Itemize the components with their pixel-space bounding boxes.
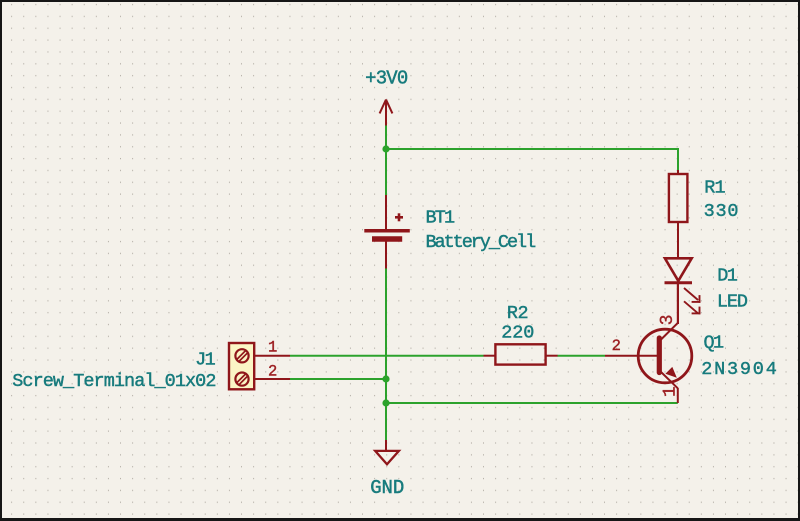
wire J1 pin2 to junction <box>290 378 386 380</box>
collector diagonal <box>661 323 678 340</box>
transistor Q1 <box>605 283 692 403</box>
gnd triangle <box>375 451 399 464</box>
svg-text:Battery_Cell: Battery_Cell <box>426 232 537 253</box>
svg-text:2: 2 <box>612 337 621 355</box>
resistor R1 <box>669 170 688 259</box>
pin top <box>385 195 387 229</box>
emitter arrow <box>665 367 676 378</box>
pin bottom <box>677 283 679 324</box>
wire bottom horizontal to emitter <box>386 402 678 404</box>
pin right <box>546 355 558 357</box>
svg-text:330: 330 <box>704 201 740 222</box>
junction J1 pin2 <box>382 375 389 382</box>
svg-text:GND: GND <box>370 477 404 499</box>
wire down to R1 <box>677 148 679 171</box>
emission arrow 2 <box>684 301 700 314</box>
junction bottom <box>382 399 389 406</box>
base bar <box>657 338 662 373</box>
body <box>669 174 688 222</box>
wire junction to battery <box>385 149 387 196</box>
body <box>495 344 545 364</box>
svg-text:Q1: Q1 <box>704 333 725 354</box>
plus sign <box>395 213 403 221</box>
screw 1 <box>235 349 248 362</box>
battery BT1 <box>364 195 410 269</box>
cathode bar <box>665 281 693 284</box>
svg-text:R1: R1 <box>704 177 725 198</box>
emitter diagonal <box>661 372 678 389</box>
emitter pin <box>677 388 679 403</box>
pin 2 line <box>254 378 290 380</box>
pin 1 line <box>254 355 290 357</box>
wire J1 pin1 to R2 <box>290 355 484 357</box>
long plate <box>364 229 410 233</box>
wire +3V0 pin to top junction <box>385 125 387 149</box>
svg-text:2N3904: 2N3904 <box>701 359 778 380</box>
short plate <box>372 236 402 241</box>
wire battery to GND <box>385 268 387 441</box>
wire top horizontal <box>386 148 678 150</box>
junction top <box>382 145 389 152</box>
svg-text:2: 2 <box>268 363 277 381</box>
collector pin <box>677 283 679 324</box>
pin bottom <box>677 222 679 259</box>
gnd pin <box>385 440 387 451</box>
svg-text:LED: LED <box>717 292 748 313</box>
pin top <box>677 170 679 174</box>
svg-text:+3V0: +3V0 <box>365 68 408 90</box>
svg-text:Screw_Terminal_01x02: Screw_Terminal_01x02 <box>12 371 215 392</box>
power symbol +3V0 arrow <box>380 100 393 126</box>
connector J1 screw terminal <box>229 343 290 389</box>
pin left <box>484 355 496 357</box>
pin number 3 <box>660 316 672 325</box>
svg-text:1: 1 <box>268 339 277 357</box>
LED D1 <box>665 258 701 324</box>
resistor R2 <box>484 344 558 364</box>
emission arrow 1 <box>684 288 700 303</box>
svg-text:J1: J1 <box>195 349 216 370</box>
base pin <box>605 355 658 357</box>
pin bottom <box>385 242 387 269</box>
svg-text:BT1: BT1 <box>426 207 456 228</box>
wire R2 to Q1 base <box>558 355 606 357</box>
screw 2 <box>235 373 248 386</box>
svg-text:R2: R2 <box>507 303 528 324</box>
ground <box>375 440 399 464</box>
body <box>229 343 254 389</box>
svg-text:220: 220 <box>501 322 534 343</box>
svg-text:D1: D1 <box>717 266 738 287</box>
triangle <box>665 258 692 281</box>
circle <box>638 329 692 383</box>
pin number 1 <box>663 387 675 396</box>
